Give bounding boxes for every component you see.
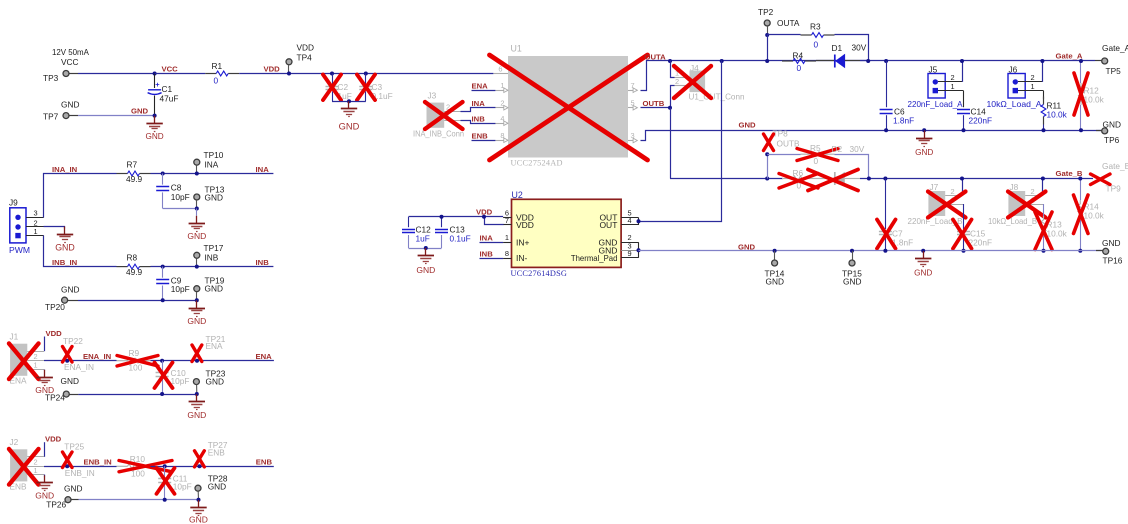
- test point TP28 GND: [195, 474, 228, 500]
- wire C12-C13 bottom: [409, 248, 442, 250]
- svg-text:9: 9: [628, 249, 632, 258]
- ground at C2C3: [339, 101, 360, 131]
- svg-text:GND: GND: [189, 515, 208, 524]
- wire C3 bottom lead: [365, 91, 367, 101]
- IC U1 UCC27524AD DNP: [508, 44, 628, 168]
- resistor R5 0 DNP: [801, 143, 835, 166]
- junction C11 bottom: [163, 498, 167, 502]
- DNP mark over R13: [1035, 212, 1052, 250]
- connector J8 10k_Load_B DNP: [988, 182, 1044, 226]
- svg-text:0: 0: [814, 156, 819, 166]
- svg-text:IN+: IN+: [516, 237, 530, 247]
- wire J4 pin1 stub: [671, 61, 675, 78]
- svg-text:1: 1: [34, 466, 38, 475]
- wire U2 OUT to OUTA rail: [639, 61, 722, 222]
- junction TP17: [195, 265, 199, 269]
- wire C1 bottom lead: [154, 96, 156, 116]
- test point TP17 INB: [194, 243, 224, 267]
- svg-text:220nF: 220nF: [969, 116, 993, 126]
- junction R12 top: [1079, 59, 1083, 63]
- svg-text:TP20: TP20: [45, 302, 65, 312]
- wire J7 pin1 to C15: [963, 204, 965, 229]
- junction TP2 R3 branch: [765, 33, 769, 37]
- U2 OUT pins tie: [638, 218, 640, 225]
- svg-text:GND: GND: [843, 276, 861, 286]
- wire C6 bottom lead: [886, 115, 888, 130]
- wire OUTB down to row B: [670, 108, 672, 179]
- svg-text:INB: INB: [205, 252, 219, 262]
- svg-text:VCC: VCC: [162, 65, 179, 74]
- test point TP15 GND: [842, 251, 862, 286]
- svg-text:10pF: 10pF: [171, 284, 190, 294]
- capacitor C13 0.1uF: [435, 217, 471, 248]
- DNP mark over R9: [117, 356, 158, 367]
- DNP mark over TP22: [63, 347, 73, 363]
- svg-text:UCC27524AD: UCC27524AD: [511, 159, 563, 168]
- svg-text:GND: GND: [145, 132, 163, 141]
- junction R14 bottom: [1078, 249, 1082, 253]
- wire TP13 gnd stub: [196, 209, 198, 216]
- wire TP2 to OUTA rail: [767, 35, 769, 61]
- capacitor C2 1uF DNP: [326, 82, 352, 101]
- test point TP6 GND: [1096, 120, 1121, 146]
- junction C11 top: [163, 464, 167, 468]
- svg-text:10pF: 10pF: [171, 192, 190, 202]
- svg-text:1: 1: [34, 227, 38, 236]
- wire VDD to J1 pin3: [44, 337, 46, 352]
- svg-text:INA: INA: [256, 165, 270, 174]
- svg-text:49.9: 49.9: [126, 267, 143, 277]
- U2 pin 6 VDD: [503, 208, 534, 222]
- IC U2 UCC27614DSG: [511, 190, 622, 278]
- junction C15 bottom: [962, 249, 966, 253]
- test point TP2: [758, 7, 800, 35]
- DNP mark over TP8: [764, 134, 774, 151]
- wire J4 pin2 stub: [671, 86, 675, 108]
- resistor R12 10.0k DNP: [1079, 61, 1105, 130]
- wire D1 to Gate_A: [860, 60, 1095, 62]
- junction TP15: [850, 249, 854, 253]
- svg-text:R4: R4: [793, 51, 804, 61]
- DNP mark over C7: [877, 220, 896, 249]
- svg-text:GND: GND: [208, 482, 226, 492]
- junction R5 rejoin: [867, 177, 871, 181]
- ground at J1: [35, 370, 54, 395]
- svg-text:12V 50mA: 12V 50mA: [52, 48, 90, 57]
- U2 GND pins tie: [638, 242, 640, 258]
- wire GND rail row B: [639, 250, 1102, 252]
- svg-text:R9: R9: [129, 348, 140, 358]
- wire J1 pin1 gnd: [44, 370, 46, 371]
- svg-text:TP7: TP7: [43, 112, 59, 122]
- svg-text:TP26: TP26: [46, 500, 66, 510]
- wire C8 to TP13: [163, 208, 197, 210]
- junction C12C13 gnd: [424, 246, 428, 250]
- test point TP20 GND: [45, 284, 79, 312]
- junction U2 OUT: [637, 219, 641, 223]
- svg-text:GND: GND: [205, 283, 223, 293]
- junction OUTB: [668, 106, 672, 110]
- junction J5 riser: [960, 59, 964, 63]
- wire ENA_IN row: [44, 360, 117, 362]
- DNP mark over J2: [9, 449, 39, 485]
- svg-text:VDD: VDD: [46, 329, 63, 338]
- junction TP25: [65, 464, 69, 468]
- U1 pin 1 ENA: [495, 81, 508, 93]
- svg-text:1: 1: [1031, 82, 1035, 91]
- junction C7 top: [883, 177, 887, 181]
- U1 pin 4 INB: [495, 114, 508, 126]
- svg-text:GND: GND: [339, 121, 360, 131]
- junction R3 rejoin: [866, 59, 870, 63]
- capacitor C1 47uF polarized: [148, 80, 179, 104]
- U2 pin 9 Thermal_Pad: [571, 249, 639, 263]
- ground at TP19: [187, 300, 206, 325]
- junction U2 OUT riser top: [720, 59, 724, 63]
- svg-text:2: 2: [1031, 73, 1035, 82]
- svg-text:D1: D1: [832, 43, 843, 53]
- svg-text:J9: J9: [9, 198, 18, 208]
- svg-text:D2: D2: [832, 144, 843, 154]
- wire C3 top lead: [365, 74, 367, 85]
- DNP mark over J4: [674, 66, 711, 98]
- junction C8 top: [161, 172, 165, 176]
- U1 pin 6 VDD: [493, 64, 508, 73]
- wire J9 pin2 to gnd: [44, 227, 65, 229]
- DNP mark over J7: [928, 192, 966, 218]
- svg-text:TP22: TP22: [63, 336, 83, 346]
- wire J7 pin2 riser: [962, 179, 964, 196]
- DNP mark over C3: [357, 75, 375, 101]
- resistor R14 10.0k DNP: [1078, 179, 1105, 251]
- svg-text:1uF: 1uF: [416, 233, 430, 243]
- svg-text:GND: GND: [914, 269, 932, 278]
- svg-text:GND: GND: [64, 484, 82, 494]
- DNP mark over C11: [157, 468, 175, 494]
- svg-text:R6: R6: [793, 168, 804, 178]
- U2 pin 3 GND: [599, 242, 639, 256]
- connector J4 U1_OUT_Conn DNP: [674, 63, 745, 101]
- test point TP26 GND: [46, 484, 82, 510]
- svg-text:R3: R3: [810, 22, 821, 32]
- wire C7 top lead: [885, 179, 887, 230]
- connector J9 PWM: [9, 198, 44, 255]
- wire J5 pin2 riser: [962, 61, 964, 82]
- svg-text:Gate_B: Gate_B: [1056, 169, 1083, 178]
- wire ENB_IN row: [44, 466, 117, 468]
- DNP mark over J3: [425, 102, 463, 129]
- svg-text:1: 1: [34, 361, 38, 370]
- wire TP24 rail: [78, 394, 196, 396]
- svg-text:IN-: IN-: [516, 253, 528, 263]
- svg-text:ENA_IN: ENA_IN: [64, 362, 94, 372]
- DNP mark over J8: [1008, 192, 1046, 218]
- svg-text:INB: INB: [256, 258, 270, 267]
- junction C9 bottom: [161, 298, 165, 302]
- svg-text:ENB: ENB: [256, 458, 273, 467]
- resistor R1 0: [205, 61, 239, 86]
- test point TP22 ENA_IN DNP: [63, 336, 94, 372]
- wire J5 pin1 to C14: [963, 91, 965, 108]
- capacitor C14 220nF: [957, 107, 992, 126]
- junction TP21: [195, 359, 199, 363]
- node VCC input label: [52, 48, 90, 67]
- test point TP7: [43, 100, 79, 122]
- svg-text:INA: INA: [472, 99, 486, 108]
- svg-text:VDD: VDD: [264, 65, 281, 74]
- wire VDD R1 to U1 pin6: [239, 73, 493, 75]
- svg-text:30V: 30V: [850, 144, 865, 154]
- svg-text:GND: GND: [738, 242, 756, 251]
- svg-text:C1: C1: [162, 84, 173, 94]
- test point TP10 INA: [194, 150, 224, 174]
- svg-text:ENB_IN: ENB_IN: [84, 458, 113, 467]
- junction J7 riser: [960, 177, 964, 181]
- junction TP10: [195, 172, 199, 176]
- capacitor C11 10pF DNP: [158, 466, 192, 499]
- wire C2 bottom lead: [332, 91, 334, 101]
- svg-text:TP24: TP24: [45, 393, 65, 403]
- wire R9 to ENA end: [151, 360, 274, 362]
- wire C15 bottom lead: [963, 237, 965, 251]
- svg-text:Gate_A: Gate_A: [1102, 43, 1128, 53]
- test point TP25 ENB_IN DNP: [64, 442, 94, 478]
- ground at TP23: [187, 394, 206, 420]
- resistor R9 100 DNP: [117, 348, 151, 373]
- svg-text:ENA: ENA: [256, 352, 273, 361]
- wire R3 branch left: [767, 34, 800, 36]
- svg-text:ENB: ENB: [208, 447, 226, 457]
- connector J7 220nF_Load_B DNP: [908, 182, 964, 226]
- resistor R7 49.9: [117, 160, 151, 184]
- diode D2 30V DNP: [816, 144, 865, 185]
- wire J2 pin1 gnd: [44, 475, 46, 477]
- junction R11 bottom: [1042, 128, 1046, 132]
- node INB net label at U2: [480, 249, 504, 258]
- svg-text:GND: GND: [739, 121, 757, 130]
- test point TP21 ENA DNP: [206, 334, 226, 351]
- ground at TP13: [187, 216, 206, 241]
- junction C10 top: [160, 359, 164, 363]
- resistor R11 10.0k: [1041, 91, 1068, 131]
- svg-text:UCC27614DSG: UCC27614DSG: [511, 269, 568, 278]
- wire R3 branch right: [835, 35, 869, 61]
- svg-text:0: 0: [214, 76, 219, 86]
- svg-text:INB_IN: INB_IN: [52, 258, 78, 267]
- svg-text:ENB_IN: ENB_IN: [65, 468, 95, 478]
- ground at TP28: [189, 500, 208, 524]
- resistor R4 0: [782, 51, 816, 73]
- wire J6 pin2 riser: [1042, 61, 1044, 82]
- connector J5 220nF_Load_A: [908, 64, 964, 109]
- svg-text:VDD: VDD: [45, 435, 62, 444]
- node ENB net label at U1: [472, 132, 496, 141]
- wire J3 pin2 to INA: [461, 108, 496, 112]
- DNP mark over D2: [808, 170, 858, 191]
- resistor R8 49.9: [117, 253, 151, 277]
- wire J8 pin2 riser: [1042, 179, 1044, 196]
- svg-text:0.1uF: 0.1uF: [450, 233, 471, 243]
- svg-text:ENA_IN: ENA_IN: [83, 352, 112, 361]
- junction TP14: [773, 249, 777, 253]
- node ENA net label at U1: [472, 82, 496, 91]
- svg-text:30V: 30V: [852, 43, 867, 53]
- U2 pin 1 IN+: [503, 233, 529, 247]
- svg-text:GND: GND: [915, 148, 933, 157]
- svg-text:OUTB: OUTB: [643, 99, 665, 108]
- wire C2 top lead: [332, 74, 334, 85]
- connector J2 ENB DNP: [10, 437, 45, 491]
- ground at C1: [145, 116, 163, 141]
- svg-text:R8: R8: [127, 253, 138, 263]
- svg-text:GND: GND: [206, 376, 224, 386]
- test point TP13 GND: [194, 184, 225, 208]
- junction R13 bottom: [1042, 249, 1046, 253]
- capacitor C8 10pF: [156, 174, 190, 209]
- svg-text:VDD: VDD: [516, 220, 534, 230]
- U2 pin 5 OUT: [599, 209, 638, 223]
- svg-text:TP16: TP16: [1103, 256, 1123, 266]
- svg-text:J7: J7: [930, 182, 939, 192]
- svg-text:10pF: 10pF: [171, 376, 190, 386]
- svg-text:GND: GND: [416, 265, 435, 275]
- ground at C12C13: [416, 248, 435, 275]
- svg-text:10.0k: 10.0k: [1047, 110, 1068, 120]
- svg-text:TP6: TP6: [1104, 135, 1120, 145]
- junction OUTA at J4: [668, 59, 672, 63]
- svg-text:8: 8: [505, 249, 509, 258]
- junction U2 GND: [637, 248, 641, 252]
- wire C14 bottom lead: [963, 115, 965, 130]
- svg-text:GND: GND: [55, 242, 75, 252]
- test point TP24 GND: [45, 376, 79, 403]
- test point TP5 Gate_A: [1095, 43, 1128, 76]
- U1 pin 3 GND: [628, 131, 637, 143]
- svg-text:1: 1: [951, 82, 955, 91]
- svg-text:0: 0: [814, 40, 819, 50]
- svg-text:TP3: TP3: [43, 73, 59, 83]
- svg-text:GND: GND: [187, 410, 206, 420]
- svg-text:ENA: ENA: [472, 82, 489, 91]
- capacitor C12 1uF: [402, 217, 431, 248]
- capacitor C15 220nF DNP: [957, 228, 992, 247]
- svg-text:INA: INA: [480, 234, 494, 243]
- svg-text:U1: U1: [511, 44, 522, 54]
- U2 pin 2 GND: [599, 233, 639, 247]
- junction TP28: [197, 498, 201, 502]
- junction pin7 branch: [482, 215, 486, 219]
- svg-text:R7: R7: [127, 160, 138, 170]
- test point TP9 Gate_B DNP: [1102, 161, 1128, 194]
- DNP mark over TP9: [1091, 174, 1111, 185]
- test point TP19 GND: [194, 275, 225, 300]
- wire VDD into U2: [409, 216, 504, 218]
- junction C2C3 gnd: [347, 99, 351, 103]
- wire D2 to Gate_B: [860, 178, 1093, 180]
- junction TP23: [195, 392, 199, 396]
- capacitor C7 1.8nF DNP: [879, 228, 913, 247]
- svg-text:10kΩ_Load_A: 10kΩ_Load_A: [987, 99, 1042, 109]
- junction J6 riser: [1040, 59, 1044, 63]
- capacitor C10 10pF DNP: [156, 361, 190, 394]
- wire TP26 rail: [79, 499, 199, 501]
- test point TP8 OUTB DNP: [773, 129, 801, 149]
- svg-text:J2: J2: [10, 437, 19, 447]
- DNP mark over U1: [490, 55, 648, 160]
- svg-text:INB: INB: [472, 115, 486, 124]
- test point TP16 GND: [1096, 238, 1123, 266]
- U2 pin 4 OUT: [599, 216, 638, 230]
- wire J3 pin1 to INB: [461, 121, 496, 124]
- resistor R10 100 DNP: [117, 454, 151, 479]
- svg-text:VCC: VCC: [61, 57, 79, 67]
- connector J1 ENA DNP: [10, 332, 45, 386]
- wire GND rail row A: [641, 131, 1102, 141]
- junction TP22: [65, 359, 69, 363]
- svg-text:Thermal_Pad: Thermal_Pad: [571, 253, 618, 263]
- resistor R6 0 DNP: [782, 168, 816, 191]
- junction at TP4: [287, 72, 291, 76]
- svg-text:Gate_B: Gate_B: [1102, 161, 1128, 171]
- junction TP8 R5 branch: [765, 152, 769, 156]
- svg-text:10.0k: 10.0k: [1047, 229, 1068, 239]
- svg-text:2: 2: [951, 73, 955, 82]
- svg-text:220nF_Load_A: 220nF_Load_A: [908, 99, 963, 109]
- resistor R3 0: [801, 22, 835, 50]
- node INA net label at U2: [480, 234, 504, 243]
- svg-text:GND: GND: [61, 284, 79, 294]
- wire VCC to R1: [155, 73, 206, 75]
- diode D1 30V: [816, 43, 867, 68]
- wire OUTB from U1 pin5: [641, 107, 671, 109]
- ground row B: [914, 251, 932, 278]
- svg-text:47uF: 47uF: [160, 94, 179, 104]
- DNP mark over R6: [779, 174, 818, 189]
- capacitor C6 1.8nF: [880, 107, 915, 126]
- wire R7 to INA end: [151, 173, 274, 175]
- junction at C2: [330, 72, 334, 76]
- junction TP8 branch: [765, 177, 769, 181]
- svg-text:4: 4: [628, 216, 632, 225]
- svg-text:PWM: PWM: [9, 245, 30, 255]
- U1 pin 2 INA: [495, 98, 508, 110]
- wire R5 branch left: [767, 154, 800, 156]
- svg-text:GND: GND: [131, 106, 149, 115]
- connector J3 INA_INB_Conn DNP: [413, 91, 464, 139]
- svg-text:J3: J3: [428, 91, 437, 101]
- DNP mark over C10: [155, 363, 173, 389]
- junction C6 bottom: [884, 128, 888, 132]
- U2 pin 8 IN-: [503, 249, 527, 263]
- wire TP20 rail: [78, 300, 197, 302]
- wire R10 to ENB end: [151, 466, 274, 468]
- junction TP27: [198, 464, 202, 468]
- svg-text:10.0k: 10.0k: [1084, 95, 1105, 105]
- svg-text:TP25: TP25: [64, 442, 84, 452]
- connector J6 10k_Load_A: [987, 64, 1044, 109]
- wire J9 pin3 to INA_IN: [44, 174, 117, 218]
- svg-text:2: 2: [675, 77, 679, 86]
- svg-text:GND: GND: [205, 192, 223, 202]
- svg-text:GND: GND: [766, 276, 784, 286]
- DNP mark over TP27: [195, 451, 205, 467]
- svg-text:10.0k: 10.0k: [1084, 211, 1105, 221]
- svg-text:TP2: TP2: [758, 7, 774, 17]
- wire R8 to INB end: [151, 266, 274, 268]
- test point TP14 GND: [765, 251, 785, 286]
- ground row A: [915, 130, 933, 157]
- test point TP3: [43, 71, 78, 84]
